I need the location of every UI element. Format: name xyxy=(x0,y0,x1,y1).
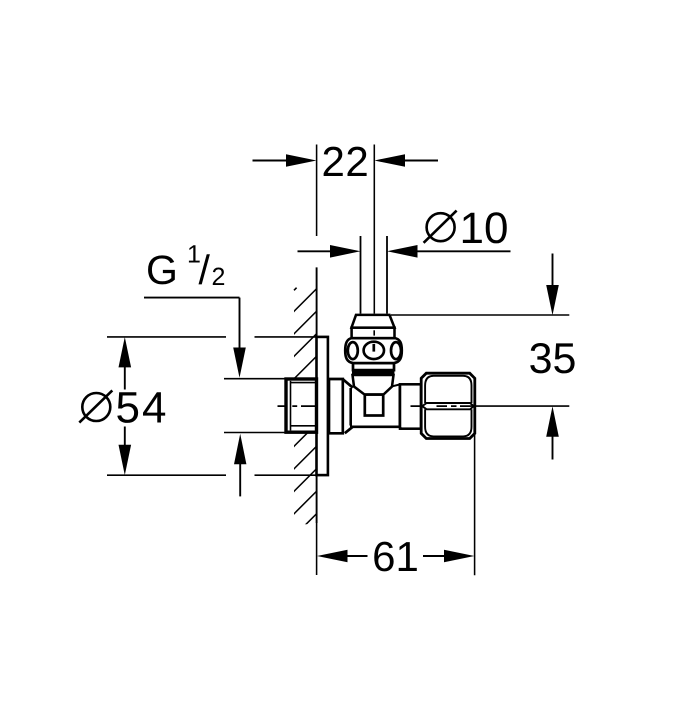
wall line xyxy=(316,267,318,523)
dim 61 arrowhead left xyxy=(317,550,348,563)
G 1/2 leader tail xyxy=(239,464,241,497)
dim 35 dimension line upper xyxy=(552,254,554,287)
dim 35 arrowhead down xyxy=(546,285,559,315)
dim 61 arrowhead right xyxy=(444,550,474,563)
dim O54 arrowhead up xyxy=(119,337,132,367)
dim O10 value label xyxy=(424,204,509,253)
dim O54 extension line bottom xyxy=(107,474,317,476)
outlet tube xyxy=(400,384,421,428)
dim 22 arrowhead left xyxy=(286,154,317,167)
centerline left xyxy=(278,405,316,407)
dim O54 dimension line upper xyxy=(124,366,126,390)
svg-text:61: 61 xyxy=(372,533,419,580)
handle left ellipse xyxy=(348,342,358,359)
G 1/2 leader underline xyxy=(144,297,240,299)
centerline right xyxy=(411,405,471,407)
svg-text:35: 35 xyxy=(529,335,577,383)
dim 22 arrowhead right xyxy=(374,154,405,167)
stub top extension line xyxy=(224,378,288,380)
G1/2 threaded stub xyxy=(286,379,317,432)
block bottom right corner step xyxy=(399,427,403,429)
square window xyxy=(365,395,383,416)
svg-text:/: / xyxy=(199,247,211,293)
handle center circle xyxy=(364,342,384,359)
stub bottom extension line xyxy=(224,432,287,434)
dim 61 dimension line right xyxy=(423,555,445,557)
G 1/2 leader arrowhead down xyxy=(233,348,246,378)
bonnet heavy band xyxy=(352,370,394,375)
dim O54 dimension line lower xyxy=(124,427,126,446)
dim O54 extension line top xyxy=(107,336,317,338)
dim 61 extension line left xyxy=(316,523,318,575)
pipe centerline / ext 22 right xyxy=(373,145,375,314)
nut lower facet xyxy=(425,409,471,436)
svg-text:2: 2 xyxy=(212,263,226,291)
dim 61 dimension line left xyxy=(347,555,368,557)
body left section xyxy=(329,379,343,433)
dim 35 arrowhead up xyxy=(546,406,559,437)
body left chamfer bottom xyxy=(345,427,353,433)
G 1/2 leader arrowhead up xyxy=(234,434,246,465)
top cap trapezoid xyxy=(352,315,395,328)
bonnet lower trapezoid xyxy=(353,375,394,395)
dim O54 arrowhead down xyxy=(119,445,132,475)
nut upper facet xyxy=(425,376,471,403)
bonnet skirt xyxy=(353,363,394,370)
hatch dot xyxy=(294,288,297,291)
body left chamfer top xyxy=(343,379,353,388)
dim 22 dimension line left xyxy=(253,160,289,162)
handle barrel xyxy=(345,338,402,363)
dim 35 extension line top xyxy=(391,314,569,316)
compression nut xyxy=(421,373,475,438)
dim O10 arrowhead right xyxy=(387,245,418,258)
riser pipe left edge xyxy=(360,236,362,314)
dim 22 dimension line right xyxy=(404,160,439,162)
extension line 35 bottom xyxy=(471,405,570,407)
dim 61 extension line right xyxy=(474,435,476,575)
stub thread lines xyxy=(291,381,317,431)
center dash in band xyxy=(373,330,375,335)
bonnet band xyxy=(352,328,395,339)
dim O10 dimension line left xyxy=(298,250,333,252)
dim O10 dimension line right xyxy=(417,250,511,252)
G 1/2 leader vertical xyxy=(239,298,241,349)
dim O54 value label xyxy=(79,384,168,433)
nut middle lines xyxy=(422,403,473,406)
flange escutcheon xyxy=(317,337,328,475)
svg-text:54: 54 xyxy=(116,384,169,433)
riser pipe right edge xyxy=(386,236,388,314)
svg-text:10: 10 xyxy=(460,204,509,253)
slot mark xyxy=(372,344,375,352)
dim 35 dimension line lower xyxy=(552,436,554,460)
dim O10 arrowhead left xyxy=(330,245,361,258)
dim 22 extension line left xyxy=(316,145,318,237)
label G 1/2 text xyxy=(146,241,225,294)
wall hatching xyxy=(289,284,321,541)
block top right corner line xyxy=(392,384,400,386)
valve center block xyxy=(350,385,400,427)
handle right ellipse xyxy=(391,342,401,359)
svg-text:22: 22 xyxy=(322,138,370,185)
svg-text:G: G xyxy=(146,247,178,293)
